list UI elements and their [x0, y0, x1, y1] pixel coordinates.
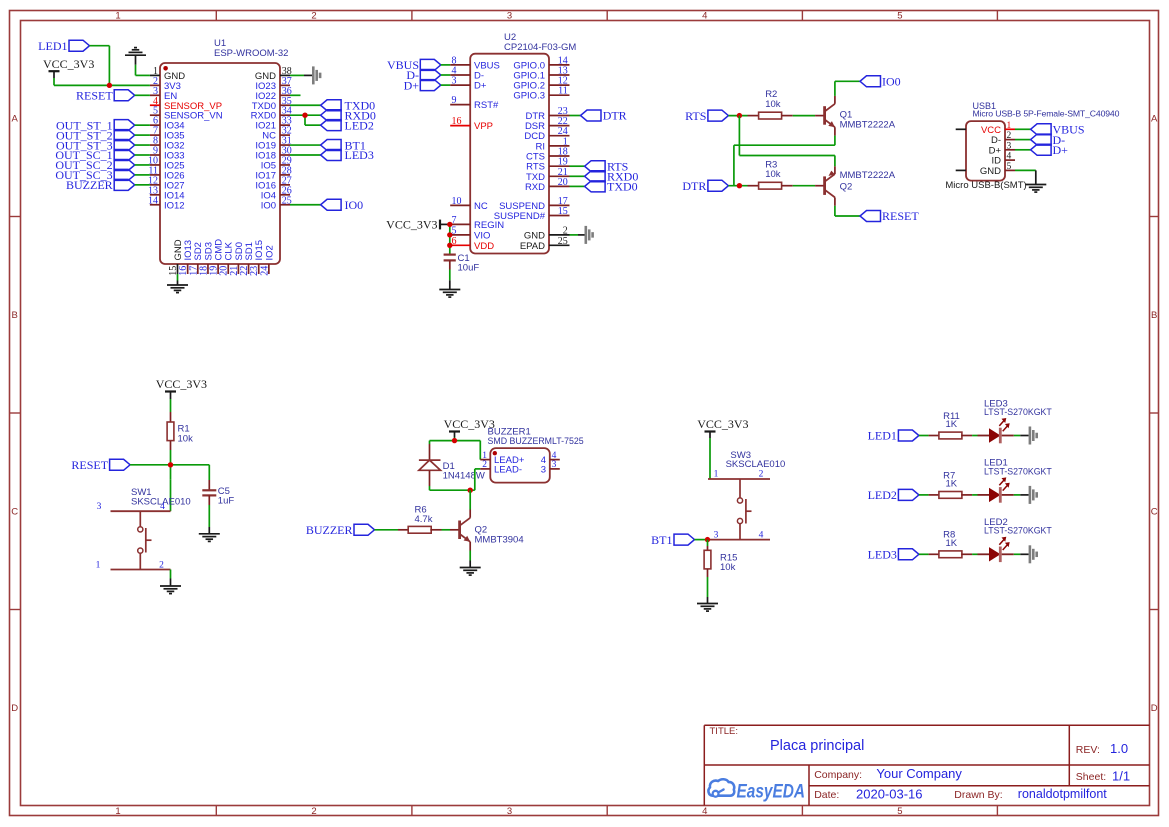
U1 pin 13 IO14: [148, 185, 185, 201]
svg-text:LED2: LED2: [868, 488, 897, 502]
svg-text:Date:: Date:: [814, 789, 839, 801]
U1 pin 17 SD2: [188, 242, 204, 276]
net flag LED3 (LED row): [868, 548, 919, 562]
LED LED3 LTST-S270KGKT: [984, 398, 1052, 443]
U1 pin 8 IO32: [150, 136, 185, 152]
svg-text:24: 24: [259, 266, 270, 276]
U1 pin 34 RXD0: [251, 106, 292, 122]
transistor Q2 MMBT2222A: [815, 166, 896, 206]
svg-text:GND: GND: [980, 166, 1001, 177]
svg-text:9: 9: [452, 95, 457, 106]
net flag D+ (USB): [1031, 143, 1069, 157]
diode D1 1N4148W: [419, 441, 485, 486]
net flag OUT_ST_2: [56, 128, 135, 142]
net flag D- (USB): [1031, 133, 1066, 147]
wire OUT_ST_3: [135, 144, 150, 146]
wire VCC buzzer rail: [430, 438, 481, 441]
U1 pin 7 IO35: [150, 126, 185, 142]
net flag RTS (U2): [585, 159, 629, 173]
U1 pin 23 IO15: [249, 240, 265, 276]
U1 pin 9 IO33: [150, 146, 185, 162]
connector USB1 Micro USB-B: [945, 101, 1119, 191]
svg-text:ronaldotpmilfont: ronaldotpmilfont: [1018, 787, 1107, 801]
svg-text:25: 25: [558, 236, 568, 247]
svg-text:B: B: [12, 310, 18, 321]
svg-text:RESET: RESET: [71, 458, 108, 472]
svg-text:D: D: [1151, 703, 1158, 714]
U2 pin 6 VDD: [450, 236, 494, 252]
junction buzzer VCC: [452, 438, 457, 443]
wire U1 pin25 IO0: [290, 204, 321, 206]
svg-text:EasyEDA: EasyEDA: [737, 781, 806, 803]
svg-text:1K: 1K: [946, 479, 958, 490]
power flag VCC_3V3 (U1): [43, 57, 94, 78]
svg-text:2020-03-16: 2020-03-16: [856, 786, 923, 801]
resistor R1 10k: [167, 412, 193, 450]
ground (LED row): [1029, 427, 1038, 445]
svg-text:GPIO.3: GPIO.3: [513, 91, 545, 102]
svg-text:D+: D+: [1053, 143, 1069, 157]
USB1 pin 5 GND: [980, 162, 1015, 177]
USB1 pin 4 ID: [992, 152, 1016, 167]
EasyEDA logo: [708, 779, 805, 802]
svg-text:REV:: REV:: [1076, 744, 1100, 756]
svg-text:3: 3: [541, 464, 546, 475]
svg-text:1K: 1K: [946, 419, 958, 430]
wire RESET node: [130, 465, 209, 479]
svg-text:11: 11: [558, 86, 568, 97]
net flag IO0 (Q1): [860, 75, 901, 89]
svg-text:1K: 1K: [946, 538, 958, 549]
net flag BT1: [321, 138, 366, 152]
svg-text:4: 4: [1007, 152, 1012, 162]
resistor R7 1K: [929, 470, 973, 498]
U1 pin 14 IO12: [148, 195, 185, 211]
svg-text:C: C: [11, 507, 18, 518]
svg-text:2: 2: [482, 460, 487, 470]
U2 pin 13 GPIO.1: [513, 66, 569, 82]
resistor R6 4.7k: [398, 504, 442, 533]
svg-text:MMBT3904: MMBT3904: [475, 534, 524, 545]
wire LED to GND: [1014, 435, 1029, 437]
power flag VCC_3V3 (SW3): [697, 417, 748, 438]
U1 pin 21 SD0: [229, 242, 245, 276]
U2 pin 17 SUSPEND: [499, 196, 569, 212]
U1 pin 37 IO23: [255, 76, 291, 92]
wire R6 to Q2 base: [442, 529, 451, 531]
svg-text:DTR: DTR: [603, 109, 627, 123]
wire GND to U1 pin1: [136, 65, 150, 76]
wire VCC to REGIN/VIO/VDD: [449, 224, 451, 254]
svg-text:2: 2: [311, 806, 316, 817]
net flag DTR: [682, 179, 728, 193]
wire LED to GND: [1014, 494, 1029, 496]
svg-text:LTST-S270KGKT: LTST-S270KGKT: [984, 466, 1052, 476]
svg-text:3: 3: [1007, 141, 1012, 151]
net flag OUT_SC_1: [55, 148, 134, 162]
svg-text:4.7k: 4.7k: [415, 514, 433, 525]
wire BUZZER to R6: [375, 529, 399, 531]
svg-text:IO0: IO0: [261, 200, 276, 211]
junction DTR: [737, 183, 742, 188]
svg-text:3: 3: [97, 502, 102, 512]
wire DTR to R3: [728, 185, 747, 187]
svg-text:14: 14: [148, 195, 158, 206]
svg-text:2: 2: [1007, 131, 1012, 141]
wire OUT_SC_2: [135, 164, 150, 166]
svg-text:B: B: [1151, 310, 1157, 321]
svg-text:1: 1: [714, 470, 719, 480]
svg-text:VCC_3V3: VCC_3V3: [43, 57, 94, 71]
wire R7 to LED: [972, 494, 977, 496]
svg-text:TITLE:: TITLE:: [710, 726, 739, 737]
svg-text:16: 16: [452, 116, 462, 127]
USB1 pin 2 D-: [991, 131, 1015, 146]
net flag RESET (Q2): [860, 209, 919, 223]
resistor R8 1K: [929, 530, 973, 558]
svg-text:VCC_3V3: VCC_3V3: [697, 417, 748, 431]
junction 3V3 net: [107, 83, 112, 88]
U1 pin 5 SENSOR_VN: [150, 106, 223, 122]
transistor Q2 MMBT3904: [450, 510, 524, 551]
svg-text:TXD0: TXD0: [607, 180, 638, 194]
U1 pin 26 IO4: [261, 185, 292, 201]
BUZZER1 pin 1 LEAD+: [480, 451, 525, 466]
svg-text:4: 4: [759, 530, 764, 540]
resistor R3 10k: [748, 159, 793, 189]
U2 pin 22 DSR: [525, 116, 570, 132]
U2 pin 23 DTR: [525, 106, 569, 122]
svg-text:20: 20: [558, 177, 568, 188]
svg-text:LED3: LED3: [868, 548, 897, 562]
svg-text:10k: 10k: [178, 433, 194, 444]
wire U1 pin35 TXD0: [290, 104, 321, 106]
net flag DTR (U2): [581, 109, 627, 123]
net flag IO0: [321, 198, 364, 212]
net flag TXD0: [321, 98, 376, 112]
wire D1 bottom net: [430, 469, 481, 490]
net flag RESET (U1 pin3): [76, 89, 135, 103]
U2 pin 16 VPP: [450, 116, 493, 132]
ground (below U1 pin15): [167, 285, 188, 293]
svg-text:MMBT2222A: MMBT2222A: [840, 119, 896, 130]
USB1 pin 1 VCC: [981, 121, 1015, 136]
ground (below C5): [199, 534, 220, 542]
U1 pin 16 IO13: [178, 240, 194, 276]
power flag VCC_3V3 (U2): [386, 218, 450, 232]
svg-text:2: 2: [759, 470, 764, 480]
U1 pin 28 IO17: [255, 165, 291, 181]
net flag TXD0 (U2): [585, 180, 638, 194]
svg-text:1: 1: [115, 806, 120, 817]
svg-text:2: 2: [563, 225, 568, 236]
svg-text:Micro USB-B(SMT): Micro USB-B(SMT): [945, 180, 1026, 191]
net flag LED1: [38, 39, 89, 53]
title block: [704, 725, 1149, 805]
wire USB GND: [1015, 170, 1036, 184]
wire RXD0: [570, 175, 585, 177]
U1 pin 31 IO19: [255, 136, 291, 152]
svg-text:A: A: [1151, 114, 1158, 125]
net flag OUT_SC_2: [55, 158, 134, 172]
power flag VCC_3V3 (R1): [156, 377, 207, 399]
net flag BT1 (SW3): [651, 533, 694, 547]
U2 pin 11 GPIO.3: [513, 86, 569, 102]
U2 pin 10 NC: [450, 196, 488, 212]
wire R15 to GND: [707, 577, 709, 604]
junction BT1: [705, 537, 710, 542]
wire USB VBUS: [1015, 128, 1031, 130]
svg-text:D+: D+: [474, 81, 487, 92]
U2 pin 15 SUSPEND#: [494, 206, 570, 222]
U1 pin 30 IO18: [255, 146, 291, 162]
svg-text:RXD: RXD: [525, 182, 545, 193]
ground (below USB1): [1025, 185, 1046, 193]
net flag RXD0 (U2): [585, 170, 639, 184]
svg-text:RESET: RESET: [76, 89, 113, 103]
svg-text:3: 3: [714, 530, 719, 540]
U1 pin 29 IO5: [261, 155, 292, 171]
wire R3 to Q2 base: [793, 185, 815, 187]
net flag RXD0: [321, 108, 376, 122]
svg-text:D+: D+: [404, 78, 420, 92]
svg-text:15: 15: [558, 206, 568, 217]
wire U1 pin30 LED3: [290, 154, 321, 156]
U2 pin 8 VBUS: [450, 55, 500, 71]
svg-text:Placa principal: Placa principal: [770, 738, 864, 754]
resistor R11 1K: [929, 411, 973, 439]
svg-text:SKSCLAE010: SKSCLAE010: [726, 459, 786, 470]
svg-text:5: 5: [897, 806, 902, 817]
svg-text:ESP-WROOM-32: ESP-WROOM-32: [214, 48, 288, 59]
svg-text:BUZZER: BUZZER: [306, 523, 353, 537]
wire OUT_SC_1: [135, 154, 150, 156]
svg-text:C: C: [1151, 507, 1158, 518]
U2 pin 20 RXD: [525, 177, 570, 193]
transistor Q1 MMBT2222A: [815, 96, 896, 136]
svg-text:5: 5: [1007, 162, 1012, 172]
svg-text:LED3: LED3: [345, 148, 374, 162]
net flag OUT_ST_1: [56, 118, 135, 132]
wire LED1 to R11: [919, 435, 929, 437]
junction RXD0 net: [302, 113, 307, 118]
U1 pin 24 IO2: [259, 245, 275, 276]
U1 pin 11 IO26: [148, 165, 184, 181]
svg-text:5: 5: [897, 10, 902, 21]
net flag D+ (U2): [404, 78, 441, 92]
net flag LED1 (LED row): [868, 429, 919, 443]
buzzer BUZZER1: [488, 427, 584, 483]
U1 pin 4 SENSOR_VP: [150, 96, 222, 112]
svg-text:LED1: LED1: [868, 429, 897, 443]
svg-text:1/1: 1/1: [1112, 768, 1130, 783]
U2 pin 1 RI: [536, 136, 570, 152]
wire RTS to R2: [728, 115, 747, 117]
wire U2 pin2 GND: [570, 234, 585, 236]
U2 pin 18 CTS: [526, 147, 570, 163]
wire DTR: [570, 115, 581, 117]
wire to SW1: [170, 479, 172, 511]
U2 pin 19 RTS: [526, 157, 569, 173]
U2 pin 24 DCD: [524, 126, 569, 142]
svg-text:10k: 10k: [720, 562, 736, 573]
wire SW1 to GND: [170, 570, 172, 587]
svg-text:LTST-S270KGKT: LTST-S270KGKT: [984, 526, 1052, 536]
U2 pin 3 D+: [450, 76, 487, 92]
wire VCC to buzzer pin1: [479, 441, 481, 460]
wire LED3 to R8: [919, 553, 929, 555]
U1 pin 18 SD3: [198, 242, 214, 276]
net flag VBUS (USB): [1031, 123, 1085, 137]
svg-text:RTS: RTS: [685, 109, 706, 123]
wire C5 to GND: [208, 505, 210, 534]
switch SW1 SKSCLAE010: [96, 487, 191, 570]
svg-text:1uF: 1uF: [218, 496, 235, 507]
wire Q2 emitter to GND: [469, 551, 471, 568]
resistor R15 10k: [704, 540, 737, 577]
svg-text:BT1: BT1: [651, 533, 672, 547]
svg-text:LTST-S270KGKT: LTST-S270KGKT: [984, 407, 1052, 417]
wire Q1 collector to IO0: [835, 81, 860, 96]
U1 pin 36 IO22: [255, 86, 291, 102]
svg-text:VPP: VPP: [474, 121, 493, 132]
wire U1 pin36 stub: [290, 94, 301, 96]
ground (right of U2): [585, 226, 594, 244]
ground (below Q2): [460, 568, 481, 576]
net flag D- (U2): [406, 68, 440, 82]
wire U1 pin31 BT1: [290, 144, 321, 146]
svg-text:Your Company: Your Company: [876, 766, 962, 781]
svg-text:IO0: IO0: [345, 198, 364, 212]
svg-text:Company:: Company:: [814, 769, 862, 781]
wire R1 to RESET node: [170, 450, 172, 465]
BUZZER1 pin 4: [541, 451, 560, 466]
svg-text:1N4148W: 1N4148W: [443, 471, 485, 482]
U2 pin 25 EPAD: [520, 236, 570, 252]
wire USB D-: [1015, 139, 1031, 141]
U2 pin 12 GPIO.2: [513, 76, 569, 92]
svg-text:3: 3: [507, 10, 512, 21]
wire R8 to LED: [972, 553, 977, 555]
wire LED to GND: [1014, 553, 1029, 555]
ground (below SW1): [160, 586, 181, 594]
svg-text:VIO: VIO: [474, 230, 490, 241]
wire U1 pin15 to GND: [177, 274, 179, 285]
wire U1 pin34 RXD0: [290, 115, 321, 125]
ground (LED row): [1029, 486, 1038, 504]
junction REGIN: [447, 222, 452, 227]
svg-text:10: 10: [452, 196, 462, 207]
svg-text:IO12: IO12: [164, 200, 185, 211]
U1 pin 15 GND: [168, 239, 184, 276]
wire D-: [441, 74, 450, 76]
svg-text:Sheet:: Sheet:: [1076, 771, 1106, 783]
U1 pin 20 CLK: [219, 241, 235, 275]
svg-text:Drawn By:: Drawn By:: [954, 789, 1002, 801]
svg-text:RESET: RESET: [882, 209, 919, 223]
junction VDD: [447, 243, 452, 248]
power flag VCC_3V3 (buzzer): [444, 417, 495, 438]
U1 pin 19 CMD: [209, 239, 225, 276]
wire VCC_3V3 to U1 pin2: [54, 78, 150, 85]
switch SW3 SKSCLAE010: [708, 450, 785, 540]
svg-text:RST#: RST#: [474, 100, 499, 111]
U2 pin 14 GPIO.0: [513, 55, 569, 71]
svg-text:LEAD-: LEAD-: [494, 464, 522, 475]
wire Q2 collector: [469, 490, 471, 509]
U1 pin 25 IO0: [261, 195, 292, 211]
svg-text:A: A: [12, 114, 19, 125]
U2 pin 7 REGIN: [450, 215, 504, 231]
svg-text:10k: 10k: [765, 169, 781, 180]
svg-text:10uF: 10uF: [458, 262, 480, 273]
svg-text:VCC_3V3: VCC_3V3: [156, 377, 207, 391]
svg-text:NC: NC: [474, 201, 488, 212]
svg-text:IO2: IO2: [264, 245, 275, 260]
svg-text:1: 1: [1007, 121, 1012, 131]
wire OUT_SC_3: [135, 174, 150, 176]
U2 pin 2 GND: [524, 225, 570, 241]
net flag LED2 (LED row): [868, 488, 919, 502]
svg-text:4: 4: [702, 806, 707, 817]
junction RTS: [737, 113, 742, 118]
ground (below C1): [439, 290, 460, 298]
wire U1 pin38 to GND: [290, 74, 312, 76]
capacitor C5 1uF: [202, 465, 234, 507]
net flag RTS: [685, 109, 728, 123]
svg-text:D: D: [11, 703, 18, 714]
wire Q1 emitter to DTR net: [734, 136, 835, 186]
wire USB D+: [1015, 149, 1031, 151]
svg-text:MMBT2222A: MMBT2222A: [840, 170, 896, 181]
svg-text:4: 4: [702, 10, 707, 21]
U1 pin 27 IO16: [255, 175, 291, 191]
wire R2 to Q1 base: [793, 115, 815, 117]
wire VCC to R1: [170, 399, 172, 412]
wire D+: [441, 84, 450, 86]
ground (above U1 pin1): [125, 48, 146, 65]
U1 pin 22 SD1: [239, 242, 255, 276]
svg-text:VDD: VDD: [474, 241, 494, 252]
chip U2 CP2104-F03-GM: [470, 32, 576, 254]
U1 pin 10 IO25: [148, 155, 185, 171]
wire RTS net to Q2 collector: [739, 116, 835, 167]
svg-text:VCC_3V3: VCC_3V3: [386, 218, 437, 232]
BUZZER1 pin 3: [541, 460, 560, 475]
net flag BUZZER (Q2): [306, 523, 375, 537]
wire BUZZER: [135, 184, 150, 186]
svg-text:4: 4: [160, 502, 165, 512]
net flag LED2: [321, 118, 374, 132]
svg-text:2: 2: [159, 560, 164, 570]
U1 pin 3 EN: [150, 86, 177, 102]
U1 pin 33 IO21: [255, 116, 291, 132]
U1 pin 32 NC: [262, 126, 292, 142]
U2 pin 21 TXD: [526, 167, 570, 183]
U1 pin 6 IO34: [150, 116, 185, 132]
svg-text:3: 3: [452, 76, 457, 87]
U1 pin 12 IO27: [148, 175, 185, 191]
svg-text:1: 1: [96, 560, 101, 570]
U1 pin 38 GND: [255, 66, 292, 82]
wire LED2 to R7: [919, 494, 929, 496]
wire C1 to GND: [449, 270, 451, 290]
net flag LED3: [321, 148, 374, 162]
wire TXD0: [570, 185, 585, 187]
wire OUT_ST_2: [135, 134, 150, 136]
net flag OUT_ST_3: [56, 138, 135, 152]
U1 pin 1 GND: [150, 66, 185, 82]
